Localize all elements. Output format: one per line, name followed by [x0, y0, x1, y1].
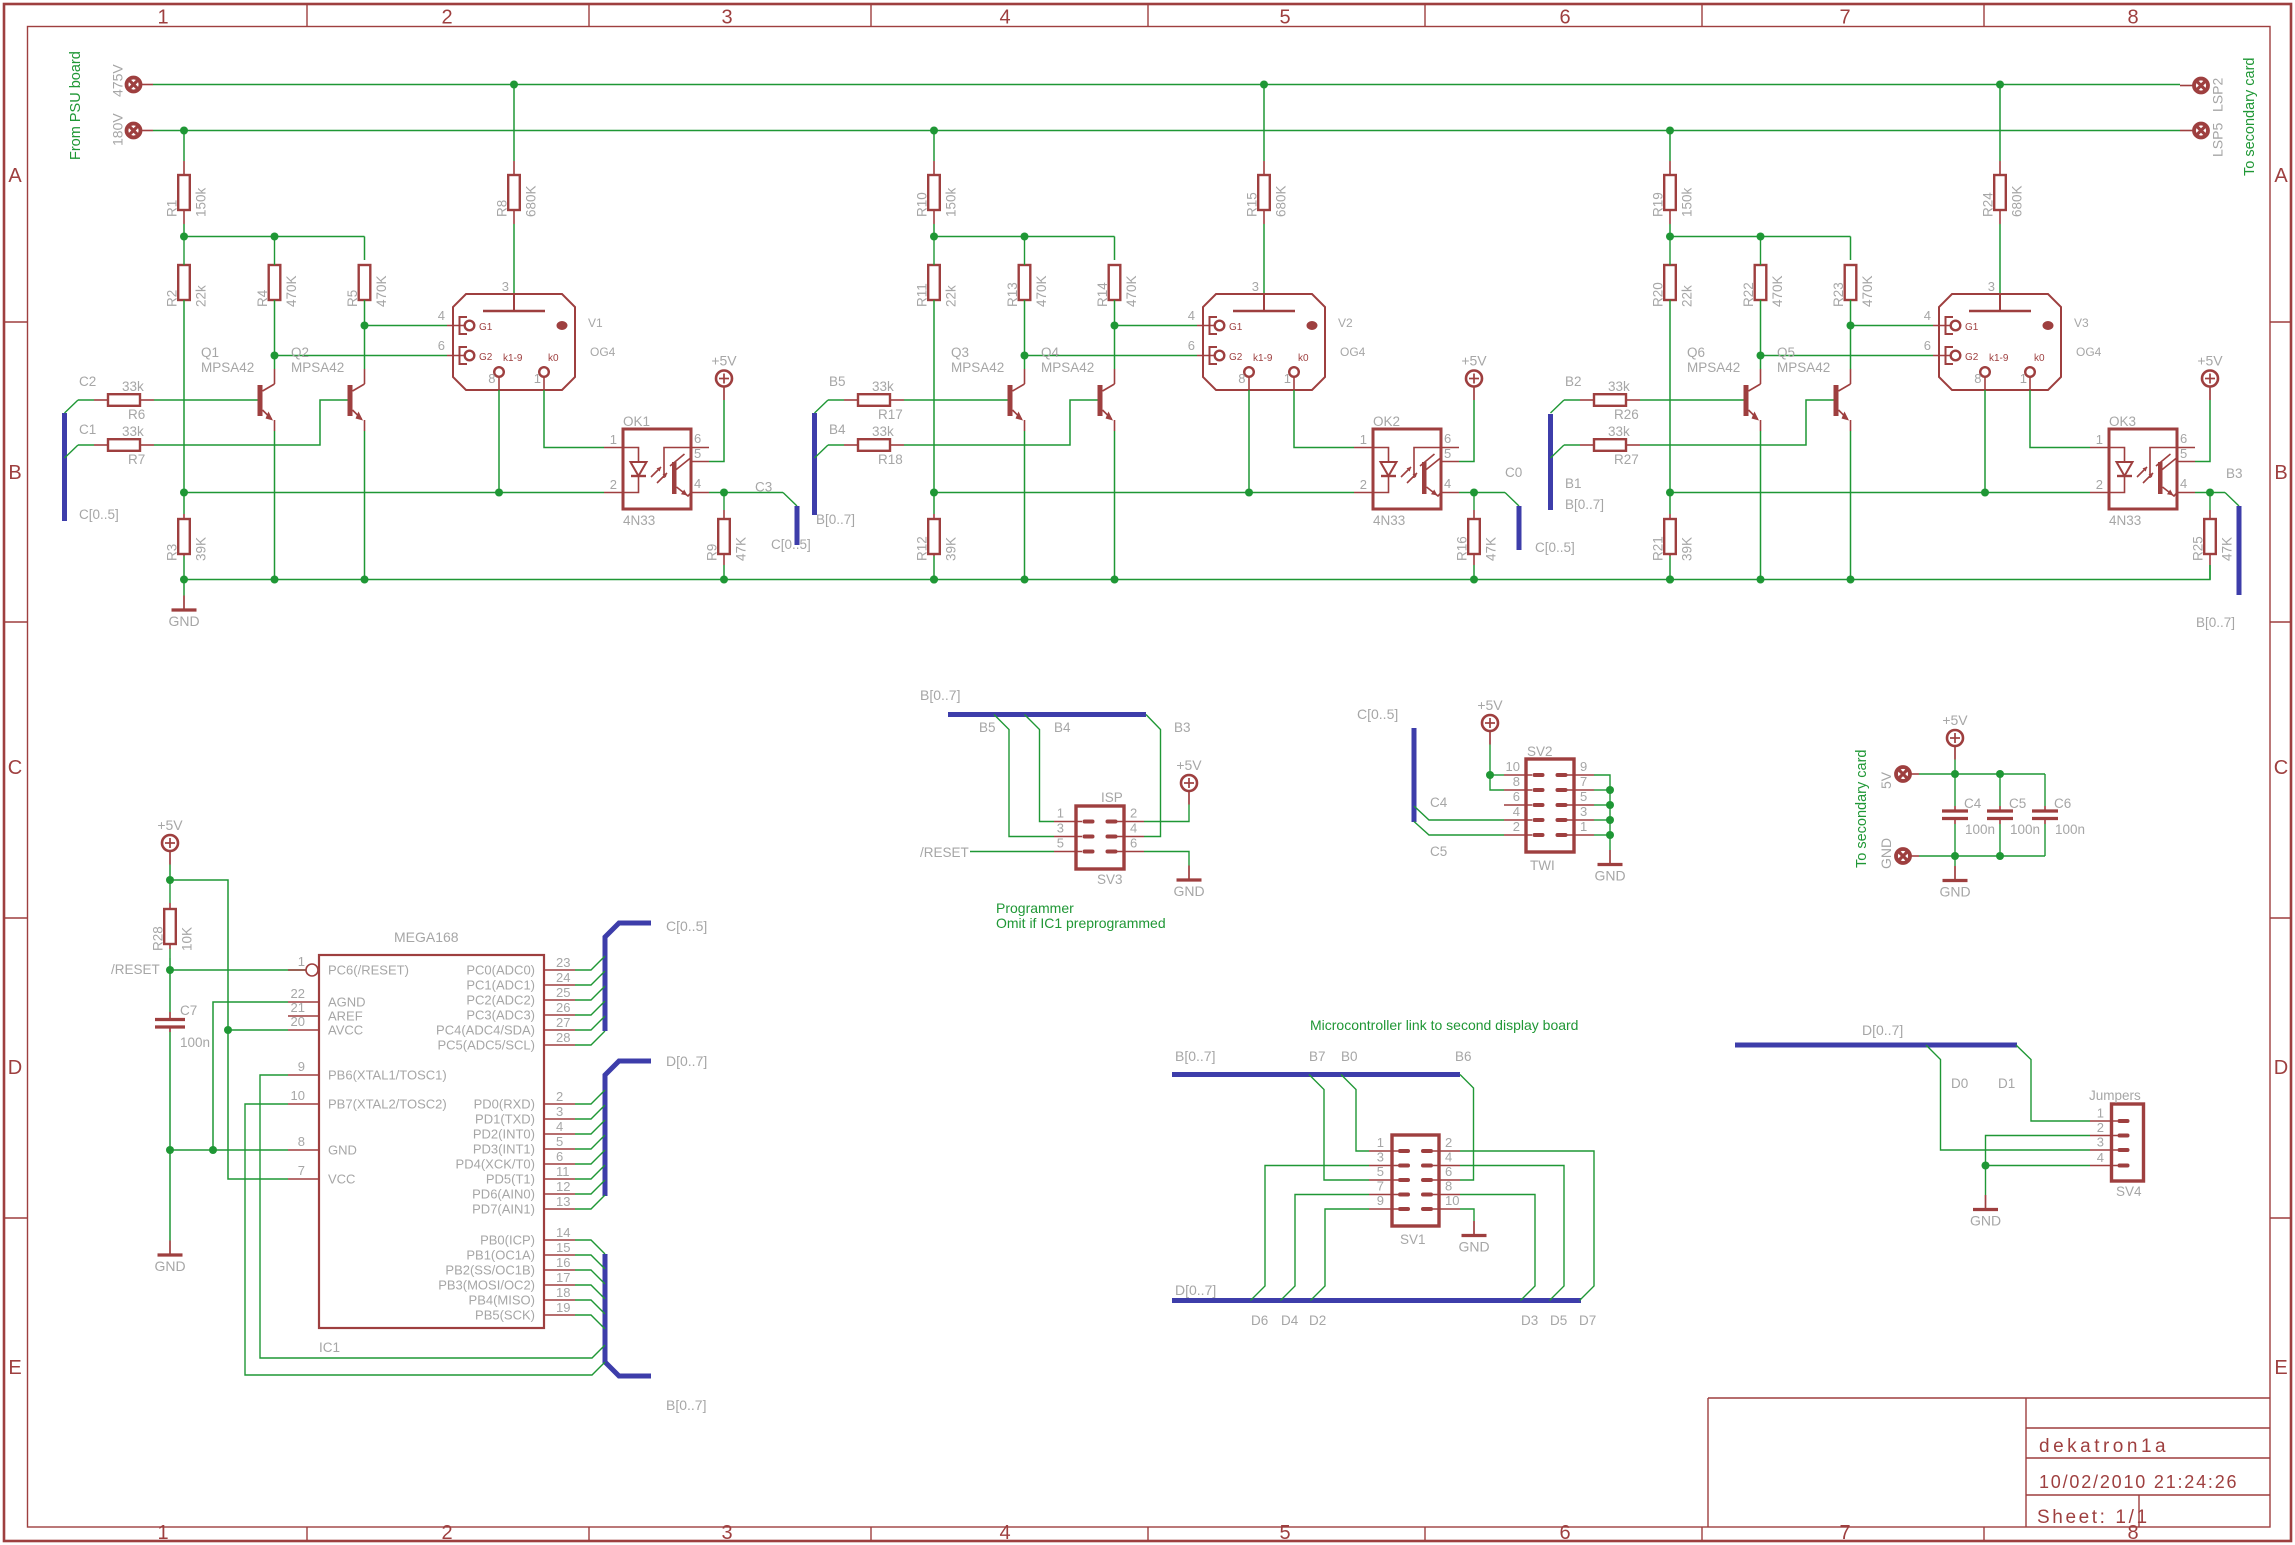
svg-text:LSP2: LSP2	[2210, 78, 2226, 112]
svg-text:C3: C3	[755, 480, 772, 495]
svg-text:470K: 470K	[284, 275, 299, 307]
junction G2 tap on Q1 collector	[271, 352, 279, 360]
svg-text:7: 7	[1580, 774, 1587, 789]
svg-text:1: 1	[157, 7, 168, 29]
svg-text:17: 17	[556, 1270, 570, 1285]
wire R27 to Q5 base	[1640, 400, 1834, 445]
SV1 pin 3 lead	[1369, 1165, 1398, 1167]
bus ripper B2	[1551, 400, 1565, 413]
SV1 pin 5 lead	[1369, 1179, 1398, 1181]
junction +5V at SV2 pin 10	[1486, 771, 1494, 779]
wire Q6 emitter to ground rail	[1760, 431, 1762, 580]
svg-text:6: 6	[1444, 431, 1451, 446]
junction ground node at C7	[166, 1146, 174, 1154]
svg-text:R14: R14	[1095, 282, 1110, 307]
SV3 pin 6 lead	[1117, 851, 1144, 853]
IC1 pin 6 PD4(XCK/T0)	[544, 1163, 575, 1165]
svg-text:PB3(MOSI/OC2): PB3(MOSI/OC2)	[438, 1278, 535, 1293]
wire k1-9 down to cathode node	[1248, 390, 1250, 493]
net 180V rail wire	[153, 130, 2180, 132]
wire PD4(XCK/T0) to D bus	[575, 1150, 605, 1164]
svg-text:10: 10	[1445, 1193, 1459, 1208]
IC1 pin 9 PB6(XTAL1/TOSC1)	[288, 1074, 319, 1076]
svg-text:100n: 100n	[180, 1035, 210, 1050]
svg-text:Q1: Q1	[201, 345, 219, 360]
wire ground node to IC1 GND pin 8	[170, 1149, 288, 1151]
IC1 pin 17 PB3(MOSI/OC2)	[544, 1284, 575, 1286]
svg-text:GND: GND	[1939, 884, 1970, 900]
svg-text:A: A	[8, 165, 22, 187]
wire G2 to tube V2	[1025, 355, 1198, 357]
svg-text:20: 20	[291, 1014, 305, 1029]
svg-text:10: 10	[1506, 759, 1520, 774]
terminal 5V to secondary card	[1896, 767, 1910, 781]
resistor R2 22k	[178, 265, 190, 300]
wire PB3(MOSI/OC2) to B bus	[575, 1285, 605, 1299]
resistor R17 33k	[844, 399, 858, 401]
svg-text:R7: R7	[128, 452, 145, 467]
resistor R15 680K	[1263, 161, 1265, 175]
wire R26 to Q6 base	[1640, 399, 1744, 401]
wire R8 top lead	[513, 85, 515, 162]
resistor R19 150k	[1669, 161, 1671, 175]
junction 475V rail at R15	[1260, 81, 1268, 89]
resistor R13 470K	[1019, 265, 1031, 300]
svg-text:4: 4	[2180, 476, 2187, 491]
resistor R26 33k	[1580, 399, 1594, 401]
bus ripper B1	[1551, 445, 1565, 458]
svg-text:B7: B7	[1309, 1049, 1326, 1064]
wire R22 bottom to Q6 collector	[1760, 300, 1762, 369]
wire R24 to tube anode	[1999, 224, 2001, 294]
wire D3 SV1 pin 8	[1460, 1195, 1535, 1301]
svg-text:4: 4	[1924, 308, 1931, 323]
wire +5V to SV3 pin 2	[1144, 805, 1189, 822]
svg-text:2: 2	[441, 7, 452, 29]
junction Q6 emitter at rail	[1757, 576, 1765, 584]
svg-text:3: 3	[556, 1104, 563, 1119]
svg-text:OK3: OK3	[2109, 414, 2136, 429]
svg-text:4: 4	[999, 1522, 1010, 1544]
transistor Q1 MPSA42	[258, 385, 263, 416]
svg-text:R1: R1	[165, 200, 180, 217]
wire B1 to R27	[1564, 444, 1580, 446]
dekatron tube V2 OG4	[1203, 294, 1325, 390]
svg-text:D[0..7]: D[0..7]	[1862, 1022, 1903, 1038]
svg-text:Q2: Q2	[291, 345, 309, 360]
wire R16 bottom to rail	[1473, 565, 1475, 580]
svg-text:33k: 33k	[872, 379, 894, 394]
wire PB7 pin 10 to B bus	[245, 1104, 605, 1375]
svg-text:R16: R16	[1455, 536, 1470, 561]
wire B4 to R18	[828, 444, 844, 446]
bus C[0..5] input stub	[62, 413, 67, 521]
opto OK1 pin 1 lead	[604, 447, 623, 449]
wire G1 to tube V2	[1115, 325, 1198, 327]
svg-text:D4: D4	[1281, 1313, 1299, 1328]
bus D[0..7] at jumpers	[1735, 1043, 2017, 1048]
junction cathode node	[1666, 489, 1674, 497]
svg-text:/RESET: /RESET	[920, 845, 969, 860]
ground symbol GND at caps	[1954, 866, 1956, 881]
wire R4 bottom to Q1 collector	[274, 300, 276, 369]
opto OK2 pin 1 lead	[1354, 447, 1373, 449]
wire PC3(ADC3) to C bus	[575, 1001, 605, 1015]
bus B[0..7] tail stage 3	[2237, 506, 2242, 595]
wire caps to ground symbol	[1954, 856, 1956, 866]
wire R3 bottom to rail	[183, 556, 185, 580]
svg-text:+5V: +5V	[1942, 712, 1968, 728]
wire k0 to opto pin 1	[1294, 390, 1354, 448]
svg-text:From PSU board: From PSU board	[68, 51, 84, 160]
terminal LSP5 to secondary card	[2194, 124, 2208, 138]
svg-text:33k: 33k	[122, 424, 144, 439]
wire PD7(AIN1) to D bus	[575, 1195, 605, 1209]
svg-text:MPSA42: MPSA42	[201, 360, 254, 375]
svg-text:SV4: SV4	[2116, 1184, 2142, 1199]
bus B[0..7] at link header	[1172, 1072, 1460, 1077]
wire R13 bottom to Q3 collector	[1024, 300, 1026, 369]
wire PB1(OC1A) to B bus	[575, 1255, 605, 1269]
svg-text:B1: B1	[1565, 476, 1582, 491]
svg-text:PD6(AIN0): PD6(AIN0)	[472, 1187, 535, 1202]
resistor R21 39K	[1669, 514, 1671, 519]
resistor R20 22k	[1664, 265, 1676, 300]
SV1 pin 6 lead	[1433, 1179, 1460, 1181]
tube V1 cathode k1-9 pin 8	[494, 367, 504, 377]
svg-text:3: 3	[1252, 279, 1259, 294]
wire SV4 pin 2 to ground	[1986, 1136, 2091, 1166]
svg-text:dekatron1a: dekatron1a	[2039, 1436, 2169, 1457]
svg-text:4: 4	[438, 308, 445, 323]
wire PD0(RXD) to D bus	[575, 1090, 605, 1104]
resistor R8 680K	[513, 161, 515, 175]
SV1 pin pads	[1398, 1149, 1410, 1153]
wire divider node horizontal	[184, 236, 365, 238]
tube V3 guide electrode G1 pin 4	[1946, 317, 1954, 334]
svg-text:47K: 47K	[1484, 537, 1499, 561]
svg-text:G1: G1	[1965, 322, 1979, 333]
svg-text:GND: GND	[328, 1143, 357, 1158]
wire PD6(AIN0) to D bus	[575, 1180, 605, 1194]
svg-text:5: 5	[1580, 789, 1587, 804]
svg-text:680K: 680K	[524, 185, 539, 217]
resistor R3 39K	[183, 514, 185, 519]
svg-text:GND: GND	[1458, 1239, 1489, 1255]
svg-text:R19: R19	[1651, 192, 1666, 217]
microcontroller IC1 MEGA168 body	[319, 955, 544, 1328]
svg-text:AVCC: AVCC	[328, 1023, 363, 1038]
tube V3 anode pin 3	[1999, 294, 2001, 311]
junction G2 tap on Q3 collector	[1021, 352, 1029, 360]
svg-text:C[0..5]: C[0..5]	[1535, 540, 1575, 555]
svg-text:3: 3	[1057, 821, 1064, 836]
junction opto pin 4 node	[720, 489, 728, 497]
svg-text:C2: C2	[79, 374, 96, 389]
ground symbol GND stage 1	[183, 580, 185, 596]
wire /RESET to IC1 pin 1	[170, 969, 306, 971]
wire +5V to opto pin 5	[2195, 400, 2210, 462]
svg-text:4: 4	[999, 7, 1010, 29]
svg-text:R20: R20	[1651, 282, 1666, 307]
opto OK3 light arrows	[2137, 467, 2153, 483]
svg-text:B0: B0	[1341, 1049, 1358, 1064]
svg-text:SV3: SV3	[1097, 872, 1123, 887]
bus ripper D0 to SV4 pin 3	[1926, 1045, 2090, 1150]
svg-text:+5V: +5V	[1176, 757, 1202, 773]
bus D[0..7] at IC1	[605, 1061, 651, 1196]
IC1 pin 26 PC3(ADC3)	[544, 1014, 575, 1016]
svg-text:GND: GND	[154, 1258, 185, 1274]
tube V1 guide electrode G2 pin 6	[460, 347, 468, 364]
junction R21 at rail	[1666, 576, 1674, 584]
junction C4 bottom	[1951, 852, 1959, 860]
+5V supply symbol +5V	[716, 371, 732, 387]
svg-text:1: 1	[1377, 1135, 1384, 1150]
svg-text:8: 8	[1238, 371, 1245, 386]
wire D5 SV1 pin 4	[1460, 1166, 1564, 1301]
svg-text:6: 6	[1513, 789, 1520, 804]
svg-text:100n: 100n	[1965, 822, 1995, 837]
svg-text:To secondary card: To secondary card	[2242, 58, 2258, 176]
svg-text:D7: D7	[1579, 1313, 1596, 1328]
SV2 pin 8 lead	[1504, 789, 1532, 791]
junction k1-9 at cathode node	[1981, 489, 1989, 497]
SV1 pin 1 lead	[1369, 1150, 1398, 1152]
svg-text:+5V: +5V	[157, 817, 183, 833]
junction divider node at R22	[1757, 233, 1765, 241]
+5V supply symbol +5V	[2202, 371, 2218, 387]
svg-text:10: 10	[291, 1088, 305, 1103]
svg-text:k1-9: k1-9	[503, 353, 523, 364]
wire D7 SV1 pin 2	[1460, 1151, 1594, 1301]
svg-text:R3: R3	[165, 544, 180, 561]
svg-text:R17: R17	[878, 407, 903, 422]
svg-text:MPSA42: MPSA42	[1041, 360, 1094, 375]
svg-text:R13: R13	[1005, 282, 1020, 307]
svg-text:V1: V1	[588, 316, 603, 330]
svg-text:PB6(XTAL1/TOSC1): PB6(XTAL1/TOSC1)	[328, 1068, 447, 1083]
wire R12 bottom to rail	[933, 556, 935, 580]
svg-text:1: 1	[1057, 806, 1064, 821]
svg-text:R28: R28	[151, 926, 166, 951]
svg-text:4N33: 4N33	[623, 513, 655, 528]
svg-text:21: 21	[291, 1000, 305, 1015]
wire 5V top rail at caps	[1919, 773, 2045, 775]
wire R23 bottom to Q5 collector	[1850, 300, 1852, 369]
junction C5 top	[1996, 770, 2004, 778]
terminal 475V from PSU	[127, 78, 141, 92]
svg-text:GND: GND	[1878, 838, 1894, 869]
wire divider node horizontal	[934, 236, 1115, 238]
wire PC5(ADC5/SCL) to C bus	[575, 1031, 605, 1045]
svg-text:/RESET: /RESET	[111, 962, 160, 977]
svg-text:180V: 180V	[110, 113, 126, 146]
svg-text:4: 4	[1130, 821, 1137, 836]
svg-text:B5: B5	[829, 374, 846, 389]
wire PD3(INT1) to D bus	[575, 1135, 605, 1149]
svg-text:5: 5	[1377, 1164, 1384, 1179]
svg-text:R9: R9	[705, 544, 720, 561]
svg-text:B: B	[2274, 462, 2287, 484]
resistor R10 150k	[933, 161, 935, 175]
svg-text:B[0..7]: B[0..7]	[1565, 497, 1604, 512]
svg-text:R8: R8	[495, 200, 510, 217]
ground symbol GND at TWI	[1609, 850, 1611, 865]
IC1 pin 28 PC5(ADC5/SCL)	[544, 1044, 575, 1046]
svg-text:33k: 33k	[122, 379, 144, 394]
tube V2 cathode k0 pin 1	[1289, 367, 1299, 377]
svg-text:PD5(T1): PD5(T1)	[486, 1172, 535, 1187]
SV4 pin pads	[2118, 1119, 2130, 1123]
wire PC1(ADC1) to C bus	[575, 971, 605, 985]
junction 180V rail to R10	[930, 127, 938, 135]
wire PC0(ADC0) to C bus	[575, 956, 605, 970]
svg-text:5: 5	[1057, 836, 1064, 851]
resistor R11 22k	[928, 265, 940, 300]
svg-text:D3: D3	[1521, 1313, 1538, 1328]
junction +5V node	[166, 876, 174, 884]
svg-text:+5V: +5V	[1461, 353, 1487, 369]
svg-text:22k: 22k	[194, 285, 209, 307]
resistor R5 470K	[359, 265, 371, 300]
SV4 pin 1 lead	[2090, 1120, 2118, 1122]
svg-text:9: 9	[298, 1059, 305, 1074]
svg-text:2: 2	[1130, 806, 1137, 821]
svg-text:4: 4	[2097, 1150, 2104, 1165]
transistor Q4 MPSA42	[1098, 385, 1103, 416]
svg-text:B5: B5	[979, 720, 996, 735]
svg-text:MPSA42: MPSA42	[1687, 360, 1740, 375]
optocoupler OK2 4N33	[1373, 429, 1441, 509]
header SV3 ISP body	[1076, 806, 1124, 869]
bus ripper C2	[65, 400, 79, 413]
svg-text:5: 5	[1444, 446, 1451, 461]
IC1 pin 13 PD7(AIN1)	[544, 1208, 575, 1210]
transistor Q3 MPSA42	[1008, 385, 1013, 416]
IC1 pin 15 PB1(OC1A)	[544, 1254, 575, 1256]
bus B[0..7] input stub	[812, 413, 817, 515]
svg-text:3: 3	[1988, 279, 1995, 294]
wire SV3 pin 6 to ground	[1144, 852, 1189, 866]
svg-text:PC5(ADC5/SCL): PC5(ADC5/SCL)	[437, 1038, 535, 1053]
svg-text:1: 1	[2097, 1106, 2104, 1121]
bus ripper B4 to ISP	[1025, 715, 1055, 822]
IC1 pin 16 PB2(SS/OC1B)	[544, 1269, 575, 1271]
svg-text:Sheet: 1/1: Sheet: 1/1	[2037, 1507, 2150, 1528]
svg-text:1: 1	[298, 954, 305, 969]
SV2 pin 4 lead	[1504, 819, 1532, 821]
svg-text:C0: C0	[1505, 465, 1522, 480]
svg-text:R6: R6	[128, 407, 145, 422]
IC1 pin 21 AREF	[288, 1015, 319, 1017]
junction Q3 emitter at rail	[1021, 576, 1029, 584]
junction 475V rail at R8	[510, 81, 518, 89]
svg-text:8: 8	[1974, 371, 1981, 386]
svg-text:6: 6	[1924, 338, 1931, 353]
wire PC4(ADC4/SDA) to C bus	[575, 1016, 605, 1030]
wire R2 bottom down to cathode node	[183, 300, 185, 514]
SV3 pin 5 lead	[1054, 851, 1082, 853]
wire R7 to Q2 base	[154, 400, 348, 445]
svg-text:1: 1	[1284, 371, 1291, 386]
tube V2 envelope dot	[1307, 321, 1318, 330]
svg-text:C[0..5]: C[0..5]	[1357, 706, 1398, 722]
wire opto pin 4 node	[2195, 492, 2210, 494]
svg-text:+5V: +5V	[2197, 353, 2223, 369]
svg-text:100n: 100n	[2055, 822, 2085, 837]
opto OK1 light arrows	[651, 467, 667, 483]
svg-text:4: 4	[1188, 308, 1195, 323]
svg-text:3: 3	[1580, 804, 1587, 819]
junction G2 tap on Q6 collector	[1757, 352, 1765, 360]
svg-text:D6: D6	[1251, 1313, 1268, 1328]
SV4 pin 2 lead	[2090, 1135, 2118, 1137]
wire R15 to tube anode	[1263, 224, 1265, 294]
bus ripper B6 to SV1 pin 6	[1460, 1075, 1474, 1181]
opto OK2 phototransistor	[1414, 448, 1441, 479]
ground symbol GND below C7	[169, 1150, 171, 1241]
svg-text:470K: 470K	[1124, 275, 1139, 307]
svg-text:3: 3	[2097, 1135, 2104, 1150]
svg-text:B[0..7]: B[0..7]	[920, 687, 960, 703]
svg-text:2: 2	[610, 477, 617, 492]
svg-text:470K: 470K	[1034, 275, 1049, 307]
svg-text:3: 3	[502, 279, 509, 294]
svg-text:VCC: VCC	[328, 1172, 355, 1187]
wire B2 to R26	[1564, 399, 1580, 401]
opto OK1 pin 6 lead	[691, 447, 709, 449]
svg-text:3: 3	[1377, 1150, 1384, 1165]
IC1 pin 27 PC4(ADC4/SDA)	[544, 1029, 575, 1031]
svg-text:PD2(INT0): PD2(INT0)	[473, 1127, 535, 1142]
svg-text:B2: B2	[1565, 374, 1582, 389]
bus ripper B5 to ISP	[994, 715, 1054, 837]
wire VCC pin 7 routing	[170, 880, 288, 1179]
svg-text:R26: R26	[1614, 407, 1639, 422]
wire PB4(MISO) to B bus	[575, 1300, 605, 1314]
bus C[0..5] at TWI header	[1412, 728, 1417, 822]
SV2 pin 9 lead	[1567, 774, 1594, 776]
wire D2 SV1 pin 9	[1311, 1209, 1370, 1301]
svg-text:10/02/2010 21:24:26: 10/02/2010 21:24:26	[2039, 1472, 2238, 1492]
SV1 pin 9 lead	[1369, 1208, 1398, 1210]
svg-text:SV1: SV1	[1400, 1232, 1426, 1247]
IC1 pin 20 AVCC	[288, 1029, 319, 1031]
svg-text:R4: R4	[255, 289, 270, 307]
svg-text:4: 4	[1445, 1150, 1452, 1165]
junction AGND tap	[209, 1146, 217, 1154]
header SV1 body	[1392, 1135, 1439, 1226]
tube V2 anode pin 3	[1263, 294, 1265, 311]
junction divider node	[930, 233, 938, 241]
junction R12 at rail	[930, 576, 938, 584]
svg-text:2: 2	[1513, 819, 1520, 834]
wire divider node horizontal	[1670, 236, 1851, 238]
junction 475V rail at R24	[1996, 81, 2004, 89]
wire into R14 top	[1114, 237, 1116, 261]
SV2 pin 2 lead	[1504, 834, 1532, 836]
dekatron tube V1 OG4	[453, 294, 575, 390]
opto OK1 pin 4 lead	[691, 492, 709, 494]
opto OK3 internal LED	[2109, 448, 2125, 493]
svg-text:k0: k0	[2034, 353, 2045, 364]
+5V supply at TWI	[1482, 715, 1498, 731]
svg-text:23: 23	[556, 955, 570, 970]
tube V1 envelope dot	[557, 321, 568, 330]
svg-text:1: 1	[2096, 432, 2103, 447]
svg-text:5: 5	[694, 446, 701, 461]
